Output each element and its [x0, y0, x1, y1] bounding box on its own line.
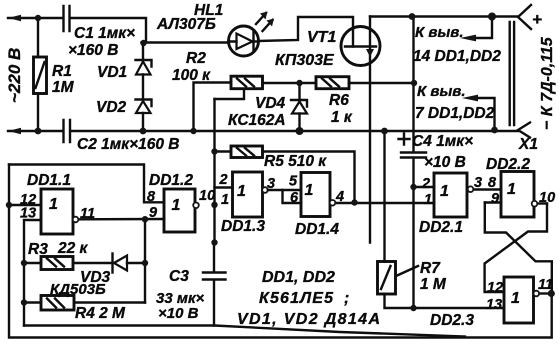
svg-text:1: 1	[507, 181, 516, 198]
svg-text:1 М: 1 М	[420, 276, 447, 293]
svg-text:3: 3	[474, 175, 482, 191]
svg-text:9: 9	[491, 191, 499, 207]
svg-text:1: 1	[305, 182, 314, 199]
svg-text:VD4: VD4	[255, 95, 286, 112]
svg-text:1: 1	[221, 192, 229, 208]
svg-text:КП303Е: КП303Е	[275, 52, 335, 69]
svg-text:VD1: VD1	[97, 64, 127, 81]
svg-text:1: 1	[424, 192, 432, 208]
svg-text:7 DD1,DD2: 7 DD1,DD2	[415, 105, 495, 122]
svg-text:К выв.: К выв.	[417, 83, 466, 100]
svg-text:;: ;	[344, 290, 349, 307]
svg-text:С1 1мк×: С1 1мк×	[74, 25, 135, 42]
svg-text:DD1.2: DD1.2	[149, 172, 193, 189]
svg-text:DD2.3: DD2.3	[430, 312, 474, 329]
svg-text:С3: С3	[169, 268, 189, 285]
svg-text:8: 8	[147, 189, 156, 205]
svg-text:1: 1	[49, 196, 58, 213]
svg-text:×160 В: ×160 В	[68, 42, 118, 59]
svg-text:DD1, DD2: DD1, DD2	[262, 269, 335, 286]
svg-text:1: 1	[237, 183, 246, 200]
svg-text:R3: R3	[28, 241, 48, 258]
svg-text:X1: X1	[518, 136, 538, 153]
svg-text:DD1.4: DD1.4	[295, 221, 339, 238]
svg-text:1: 1	[440, 183, 449, 200]
svg-text:R5 510 к: R5 510 к	[264, 153, 327, 170]
svg-text:АЛ307Б: АЛ307Б	[156, 16, 216, 33]
svg-text:R4 2 М: R4 2 М	[75, 305, 126, 322]
svg-text:22 к: 22 к	[57, 240, 89, 257]
svg-text:VT1: VT1	[307, 29, 336, 46]
svg-text:С2 1мк×160 В: С2 1мк×160 В	[77, 136, 179, 153]
svg-text:8: 8	[488, 175, 497, 191]
svg-text:1: 1	[172, 197, 181, 214]
svg-text:2: 2	[421, 176, 430, 192]
svg-text:DD1.1: DD1.1	[27, 172, 71, 189]
svg-text:4: 4	[335, 189, 344, 205]
svg-text:1: 1	[511, 290, 520, 307]
svg-text:R2: R2	[186, 50, 206, 67]
svg-text:100 к: 100 к	[172, 67, 211, 84]
svg-text:11: 11	[80, 206, 95, 222]
svg-text:12: 12	[487, 280, 503, 296]
svg-text:3: 3	[267, 176, 275, 192]
svg-text:10: 10	[539, 190, 555, 206]
svg-text:×10 В: ×10 В	[424, 154, 466, 171]
svg-text:×10 В: ×10 В	[158, 305, 199, 322]
svg-text:DD1.3: DD1.3	[221, 218, 265, 235]
svg-text:9: 9	[149, 205, 157, 221]
svg-text:DD2.1: DD2.1	[419, 219, 463, 236]
svg-text:VD1, VD2 Д814А: VD1, VD2 Д814А	[237, 311, 380, 328]
svg-text:+: +	[532, 10, 542, 29]
svg-text:К выв.: К выв.	[415, 24, 464, 41]
svg-text:R7: R7	[420, 260, 441, 277]
svg-text:11: 11	[538, 277, 553, 293]
svg-text:2: 2	[219, 172, 228, 188]
svg-text:КС162А: КС162А	[228, 112, 286, 129]
svg-text:6: 6	[290, 190, 299, 206]
svg-text:DD2.2: DD2.2	[486, 156, 530, 173]
svg-text:R6: R6	[329, 92, 349, 109]
svg-text:13: 13	[20, 206, 36, 222]
svg-text:10: 10	[199, 188, 215, 204]
svg-text:С4 1мк×: С4 1мк×	[412, 133, 473, 150]
svg-text:13: 13	[486, 297, 502, 313]
svg-text:5: 5	[289, 174, 298, 190]
svg-text:VD2: VD2	[96, 99, 127, 116]
svg-text:1М: 1М	[52, 79, 75, 96]
svg-text:К561ЛЕ5: К561ЛЕ5	[259, 290, 334, 307]
svg-text:− К 7Д-0,115: − К 7Д-0,115	[539, 36, 556, 130]
svg-text:~220 В: ~220 В	[5, 48, 24, 103]
svg-text:R1: R1	[52, 63, 72, 80]
svg-text:14 DD1,DD2: 14 DD1,DD2	[413, 48, 501, 65]
svg-text:КД503Б: КД503Б	[50, 281, 106, 298]
svg-text:1 к: 1 к	[331, 109, 353, 126]
